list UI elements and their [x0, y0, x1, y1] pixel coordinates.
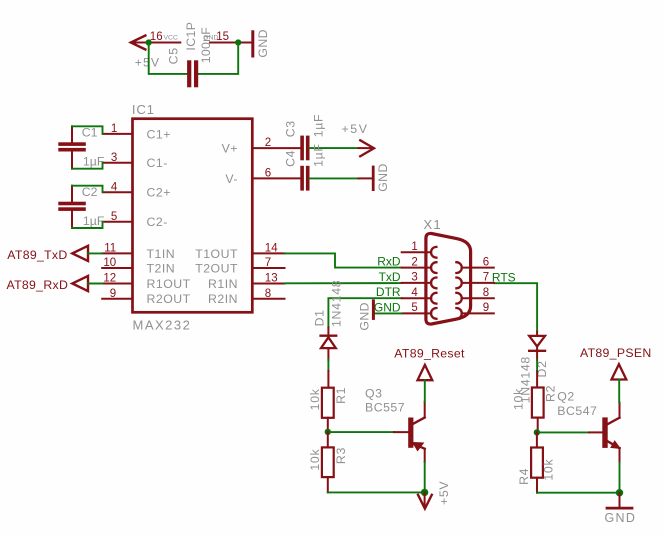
svg-text:11: 11	[104, 243, 116, 255]
svg-text:R3: R3	[334, 447, 348, 464]
IC1 pin 11 T1IN	[102, 243, 175, 261]
svg-text:V+: V+	[222, 142, 238, 156]
svg-text:3: 3	[111, 152, 117, 164]
power symbol +5V (Q3 emitter)	[418, 481, 451, 509]
capacitor C5	[167, 27, 213, 88]
svg-text:100nF: 100nF	[199, 27, 213, 64]
svg-text:C2-: C2-	[147, 215, 168, 229]
svg-text:C3: C3	[283, 120, 297, 137]
X1 pin 3	[402, 272, 432, 284]
wire C4 to GND	[310, 177, 359, 179]
node AT89_PSEN	[580, 346, 652, 379]
svg-text:C4: C4	[283, 150, 297, 167]
svg-text:14: 14	[265, 243, 278, 255]
transistor Q2 BC547	[557, 389, 620, 492]
svg-text:1µF: 1µF	[83, 155, 105, 169]
IC1 pin 2 V+	[222, 137, 301, 155]
capacitor C1	[58, 126, 105, 169]
junction node Q3 emitter	[421, 489, 428, 496]
resistor R1	[308, 371, 348, 432]
junction node at GND/C5	[235, 39, 241, 45]
X1 pin 6	[462, 256, 494, 268]
svg-text:MAX232: MAX232	[133, 318, 192, 333]
capacitor C4	[283, 143, 325, 190]
svg-text:RxD: RxD	[377, 255, 401, 269]
svg-text:2: 2	[265, 137, 271, 149]
svg-text:1µF: 1µF	[311, 143, 325, 167]
transistor Q3 BC557	[365, 386, 425, 492]
wire R1IN to X1 pin 3 (TxD)	[285, 282, 402, 284]
svg-text:10k: 10k	[308, 388, 322, 410]
diode D1 1N4148	[312, 280, 343, 360]
wire C2 top to pin 4	[72, 186, 103, 193]
wire R3 to Q3 emitter / +5V	[328, 491, 425, 493]
svg-text:8: 8	[265, 288, 271, 300]
X1 pin 5	[402, 302, 432, 314]
svg-text:C2: C2	[82, 185, 98, 199]
svg-text:GND: GND	[605, 511, 637, 525]
X1 contact 4	[431, 293, 436, 304]
svg-text:4: 4	[111, 181, 118, 193]
svg-text:1N4148: 1N4148	[330, 280, 344, 327]
svg-text:7: 7	[265, 257, 271, 269]
wire C2 bottom to pin 5	[72, 222, 103, 228]
X1 contact 5	[431, 308, 436, 319]
wire +5V down to C5	[149, 43, 187, 74]
svg-text:GND: GND	[357, 302, 371, 331]
svg-text:R1OUT: R1OUT	[147, 277, 191, 291]
svg-text:C1: C1	[82, 126, 98, 140]
svg-text:C1-: C1-	[147, 156, 168, 170]
svg-text:R4: R4	[517, 468, 531, 485]
X1 contact 9	[456, 308, 461, 319]
svg-text:AT89_RxD: AT89_RxD	[7, 278, 69, 292]
svg-text:C5: C5	[167, 47, 181, 64]
ground symbol GND (top right of IC1P)	[253, 29, 270, 58]
capacitor C3	[283, 114, 325, 161]
wire C1 bottom to pin 3	[72, 163, 103, 169]
svg-text:IC1P: IC1P	[184, 22, 198, 51]
wire RTS from X1 pin 7 to D2	[494, 283, 537, 331]
svg-text:1µF: 1µF	[311, 114, 325, 138]
svg-text:9: 9	[483, 302, 489, 314]
IC1 pin 8 R2IN	[208, 288, 285, 306]
wire AT89_TxD to pin 11	[88, 252, 102, 254]
svg-text:3: 3	[411, 272, 417, 284]
wire DTR from X1 pin 4 down to D1	[328, 298, 401, 327]
IC1 pin 7 T2OUT	[195, 257, 284, 275]
IC1 pin 13 R1IN	[208, 273, 285, 291]
X1 contact 7	[456, 278, 461, 289]
node AT89_RxD	[7, 276, 89, 292]
svg-text:13: 13	[265, 273, 278, 285]
svg-text:+5V: +5V	[437, 481, 451, 505]
wire C3 to +5V	[310, 147, 359, 149]
svg-text:BC547: BC547	[557, 404, 597, 418]
svg-text:R1: R1	[334, 387, 348, 404]
svg-text:X1: X1	[423, 217, 442, 232]
svg-text:10k: 10k	[541, 459, 555, 481]
wire R4 to Q2 emitter / GND	[537, 492, 620, 494]
IC1 pin 9 R2OUT	[102, 288, 190, 306]
svg-text:D1: D1	[312, 309, 326, 326]
junction node Q3 base	[325, 429, 331, 435]
svg-text:C1+: C1+	[147, 127, 171, 141]
X1 contact 8	[456, 293, 461, 304]
wire T1OUT to X1 pin 2 (RxD)	[285, 253, 402, 267]
power symbol +5V (right of C3)	[342, 122, 375, 157]
wire X1 pin 5 to GND	[375, 312, 402, 314]
svg-text:1µF: 1µF	[83, 214, 105, 228]
ground symbol GND (X1 pin 5)	[357, 301, 373, 331]
X1 pin 8	[462, 287, 494, 299]
IC1P power pin 16 (VCC)	[149, 31, 181, 43]
X1 contact 1	[431, 247, 436, 258]
resistor R4	[517, 432, 555, 492]
X1 pin 7	[462, 272, 494, 284]
svg-text:5: 5	[111, 211, 117, 223]
resistor R3	[308, 432, 348, 493]
connector X1 body	[423, 217, 470, 324]
wire C5 to GND	[198, 43, 238, 74]
svg-text:R2OUT: R2OUT	[147, 292, 191, 306]
wire R1/R3 to Q3 base	[328, 431, 394, 433]
svg-text:GND: GND	[376, 163, 390, 192]
svg-text:6: 6	[483, 256, 489, 268]
svg-text:GND: GND	[256, 29, 270, 58]
IC1 pin 12 R1OUT	[102, 273, 190, 291]
wire AT89_PSEN to Q2 collector	[618, 380, 620, 403]
svg-text:T2OUT: T2OUT	[195, 261, 238, 275]
ground symbol GND (right of C4)	[373, 163, 390, 192]
svg-text:16: 16	[150, 31, 163, 43]
wire D2 to R2	[536, 360, 538, 371]
svg-text:R1IN: R1IN	[208, 277, 238, 291]
svg-text:T1IN: T1IN	[147, 247, 176, 261]
node AT89_Reset	[394, 347, 465, 381]
svg-text:1: 1	[411, 241, 417, 253]
svg-text:1: 1	[111, 123, 117, 135]
svg-text:R2IN: R2IN	[208, 292, 238, 306]
svg-text:RTS: RTS	[492, 270, 516, 284]
IC1 pin 1 C1+	[103, 123, 171, 141]
IC1 pin 6 V-	[225, 168, 300, 186]
svg-text:GND: GND	[374, 300, 401, 314]
svg-text:Q3: Q3	[365, 386, 382, 400]
X1 pin 1	[402, 241, 432, 253]
svg-text:Q2: Q2	[557, 389, 574, 403]
power symbol +5V (top, at IC1P VCC)	[131, 36, 160, 70]
wire AT89_RxD to pin 12	[88, 283, 102, 285]
IC1 pin 5 C2-	[103, 211, 168, 229]
wire AT89_Reset to Q3 collector	[424, 380, 426, 402]
junction node Q2 emitter	[616, 489, 623, 496]
wire D1 to R1	[327, 360, 329, 371]
diode D2 1N4148	[519, 332, 550, 404]
svg-text:R2: R2	[544, 385, 558, 402]
svg-text:+5V: +5V	[135, 56, 160, 70]
svg-text:7: 7	[483, 272, 489, 284]
svg-text:6: 6	[265, 168, 271, 180]
IC1P power pin 15 (GND)	[203, 31, 252, 43]
svg-text:15: 15	[216, 31, 229, 43]
X1 pin 2	[402, 256, 432, 268]
IC1 pin 3 C1-	[103, 152, 168, 170]
svg-text:AT89_Reset: AT89_Reset	[394, 347, 465, 361]
svg-text:8: 8	[483, 287, 489, 299]
X1 pin 9	[462, 302, 494, 314]
junction node Q2 base	[534, 429, 540, 435]
svg-text:V-: V-	[225, 172, 238, 186]
svg-text:10k: 10k	[308, 449, 322, 471]
svg-text:T2IN: T2IN	[147, 261, 176, 275]
svg-text:12: 12	[103, 273, 116, 285]
svg-text:DTR: DTR	[376, 285, 401, 299]
svg-text:IC1: IC1	[132, 102, 155, 117]
X1 contact 3	[431, 278, 436, 289]
svg-text:AT89_TxD: AT89_TxD	[7, 248, 67, 262]
node AT89_TxD	[7, 246, 88, 262]
capacitor C2	[58, 185, 105, 228]
svg-text:TxD: TxD	[379, 270, 401, 284]
svg-text:2: 2	[411, 256, 417, 268]
svg-text:5: 5	[411, 302, 417, 314]
svg-text:9: 9	[110, 288, 116, 300]
X1 contact 6	[456, 262, 461, 273]
svg-text:C2+: C2+	[147, 186, 171, 200]
svg-text:10: 10	[103, 257, 116, 269]
wire R2/R4 to Q2 base	[537, 431, 589, 433]
svg-text:T1OUT: T1OUT	[195, 247, 238, 261]
resistor R2	[512, 371, 558, 432]
svg-text:VCC: VCC	[164, 34, 178, 41]
X1 contact 2	[431, 262, 436, 273]
wire C1 top to pin 1	[72, 126, 103, 134]
svg-text:4: 4	[411, 287, 418, 299]
IC1 pin 10 T2IN	[102, 257, 175, 275]
X1 pin 4	[402, 287, 432, 299]
svg-text:+5V: +5V	[342, 122, 369, 136]
IC1 pin 4 C2+	[103, 181, 171, 199]
IC1 pin 14 T1OUT	[195, 243, 284, 261]
ground symbol GND (Q2 emitter)	[605, 493, 637, 525]
svg-text:10k: 10k	[512, 388, 526, 410]
svg-text:BC557: BC557	[365, 401, 405, 415]
IC U1: MAX232 body	[132, 102, 252, 333]
svg-text:AT89_PSEN: AT89_PSEN	[580, 346, 652, 360]
junction node at +5V/C5	[146, 39, 152, 45]
